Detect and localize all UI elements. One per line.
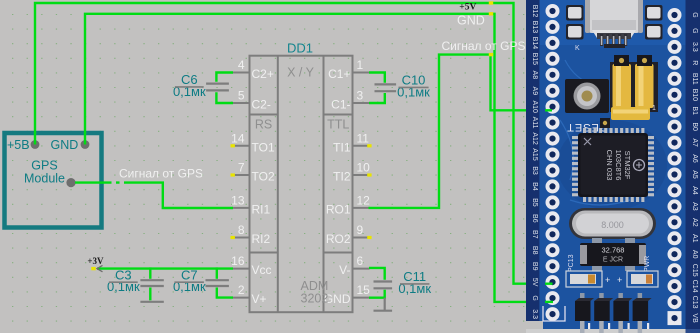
svg-text:B9: B9 [531, 262, 538, 271]
svg-text:12: 12 [357, 193, 371, 207]
svg-text:DD1: DD1 [287, 41, 313, 56]
svg-text:1: 1 [357, 58, 364, 72]
svg-text:+: + [617, 275, 622, 285]
svg-text:RO2: RO2 [326, 232, 351, 246]
svg-text:B14: B14 [531, 37, 538, 50]
svg-text:C14: C14 [691, 280, 698, 293]
svg-text:PC13: PC13 [568, 254, 575, 272]
svg-text:B5: B5 [531, 198, 538, 207]
svg-text:X / Y: X / Y [287, 66, 315, 80]
svg-text:V+: V+ [252, 292, 267, 306]
svg-text:VB: VB [691, 313, 698, 323]
svg-text:3: 3 [357, 89, 364, 103]
svg-text:A10: A10 [531, 100, 538, 113]
svg-text:B12: B12 [531, 5, 538, 18]
svg-text:B8: B8 [531, 246, 538, 255]
svg-text:B1: B1 [691, 106, 698, 115]
svg-text:3.3: 3.3 [531, 309, 538, 319]
svg-text:A6: A6 [691, 154, 698, 163]
svg-text:RO1: RO1 [326, 202, 351, 216]
svg-text:A0: A0 [691, 250, 698, 259]
svg-text:Сигнал от GPS: Сигнал от GPS [119, 166, 203, 180]
svg-text:B11: B11 [691, 73, 698, 85]
svg-text:RS: RS [255, 118, 272, 132]
svg-text:TI1: TI1 [333, 140, 351, 154]
svg-text:A3: A3 [691, 202, 698, 211]
svg-text:0,1мк: 0,1мк [173, 279, 206, 294]
svg-text:Module: Module [24, 172, 65, 186]
svg-text:3.3: 3.3 [691, 42, 698, 52]
svg-text:9: 9 [357, 223, 364, 237]
svg-text:Сигнал от GPS: Сигнал от GPS [442, 39, 526, 53]
svg-text:B4: B4 [531, 182, 538, 191]
svg-text:+: + [605, 275, 610, 285]
svg-text:3202: 3202 [301, 292, 329, 306]
svg-text:B10: B10 [691, 89, 698, 102]
svg-text:B3: B3 [531, 166, 538, 175]
svg-text:B15: B15 [531, 53, 538, 66]
svg-text:A2: A2 [691, 218, 698, 227]
svg-text:R: R [691, 60, 698, 65]
svg-text:+5V: +5V [459, 2, 476, 12]
svg-text:G: G [691, 12, 698, 17]
svg-text:GND: GND [457, 14, 485, 28]
svg-text:13: 13 [231, 193, 245, 207]
svg-text:11: 11 [357, 131, 370, 145]
svg-text:+5B: +5B [7, 138, 30, 152]
svg-text:B0: B0 [691, 122, 698, 131]
svg-text:Vcc: Vcc [252, 263, 272, 277]
svg-text:STM32F: STM32F [623, 151, 632, 180]
svg-text:A7: A7 [691, 138, 698, 147]
svg-text:TTL: TTL [327, 118, 349, 132]
svg-text:103C8T6: 103C8T6 [614, 150, 623, 181]
svg-text:K: K [575, 45, 580, 52]
svg-text:0,1мк: 0,1мк [397, 84, 430, 99]
svg-text:C1-: C1- [331, 98, 350, 112]
svg-text:A5: A5 [691, 170, 698, 179]
svg-text:A8: A8 [531, 71, 538, 80]
svg-text:GPS: GPS [31, 159, 57, 173]
svg-text:15: 15 [357, 283, 371, 297]
svg-text:0,1мк: 0,1мк [107, 279, 140, 294]
svg-text:B13: B13 [531, 21, 538, 34]
svg-text:A4: A4 [691, 186, 698, 195]
svg-text:CHN 033: CHN 033 [605, 150, 614, 181]
svg-text:8.000: 8.000 [601, 220, 624, 230]
svg-text:4: 4 [238, 58, 245, 72]
svg-text:RI2: RI2 [252, 232, 271, 246]
svg-text:B6: B6 [531, 214, 538, 223]
svg-text:14: 14 [231, 131, 245, 145]
svg-text:TI2: TI2 [333, 170, 351, 184]
svg-text:1: 1 [652, 105, 656, 112]
svg-text:5: 5 [238, 89, 245, 103]
svg-text:6: 6 [357, 254, 364, 268]
svg-text:5V: 5V [531, 278, 538, 287]
svg-text:V-: V- [339, 263, 350, 277]
svg-text:TO2: TO2 [252, 170, 275, 184]
svg-text:RI1: RI1 [252, 202, 271, 216]
svg-text:C15: C15 [691, 264, 698, 277]
svg-text:C1+: C1+ [328, 67, 350, 81]
svg-text:GND: GND [51, 138, 79, 152]
svg-text:7: 7 [238, 161, 245, 175]
svg-text:TO1: TO1 [252, 140, 275, 154]
svg-text:G: G [531, 295, 538, 300]
svg-text:+3V: +3V [87, 256, 104, 266]
svg-text:C2-: C2- [252, 98, 271, 112]
svg-text:A11: A11 [531, 117, 538, 129]
svg-text:A1: A1 [691, 234, 698, 243]
svg-text:C13: C13 [691, 296, 698, 309]
svg-text:G: G [691, 28, 698, 33]
svg-text:B7: B7 [531, 230, 538, 239]
svg-text:16: 16 [231, 254, 245, 268]
svg-text:C2+: C2+ [252, 67, 274, 81]
svg-text:A15: A15 [531, 148, 538, 161]
svg-text:2: 2 [238, 283, 245, 297]
svg-text:10: 10 [357, 161, 371, 175]
svg-text:A9: A9 [531, 87, 538, 96]
svg-text:0,1мк: 0,1мк [398, 281, 431, 296]
svg-text:8: 8 [238, 223, 245, 237]
svg-text:32.768: 32.768 [602, 246, 625, 255]
svg-text:E JCR: E JCR [603, 257, 623, 264]
svg-text:0,1мк: 0,1мк [173, 84, 206, 99]
svg-text:PWR: PWR [644, 256, 651, 272]
svg-text:A12: A12 [531, 132, 538, 145]
